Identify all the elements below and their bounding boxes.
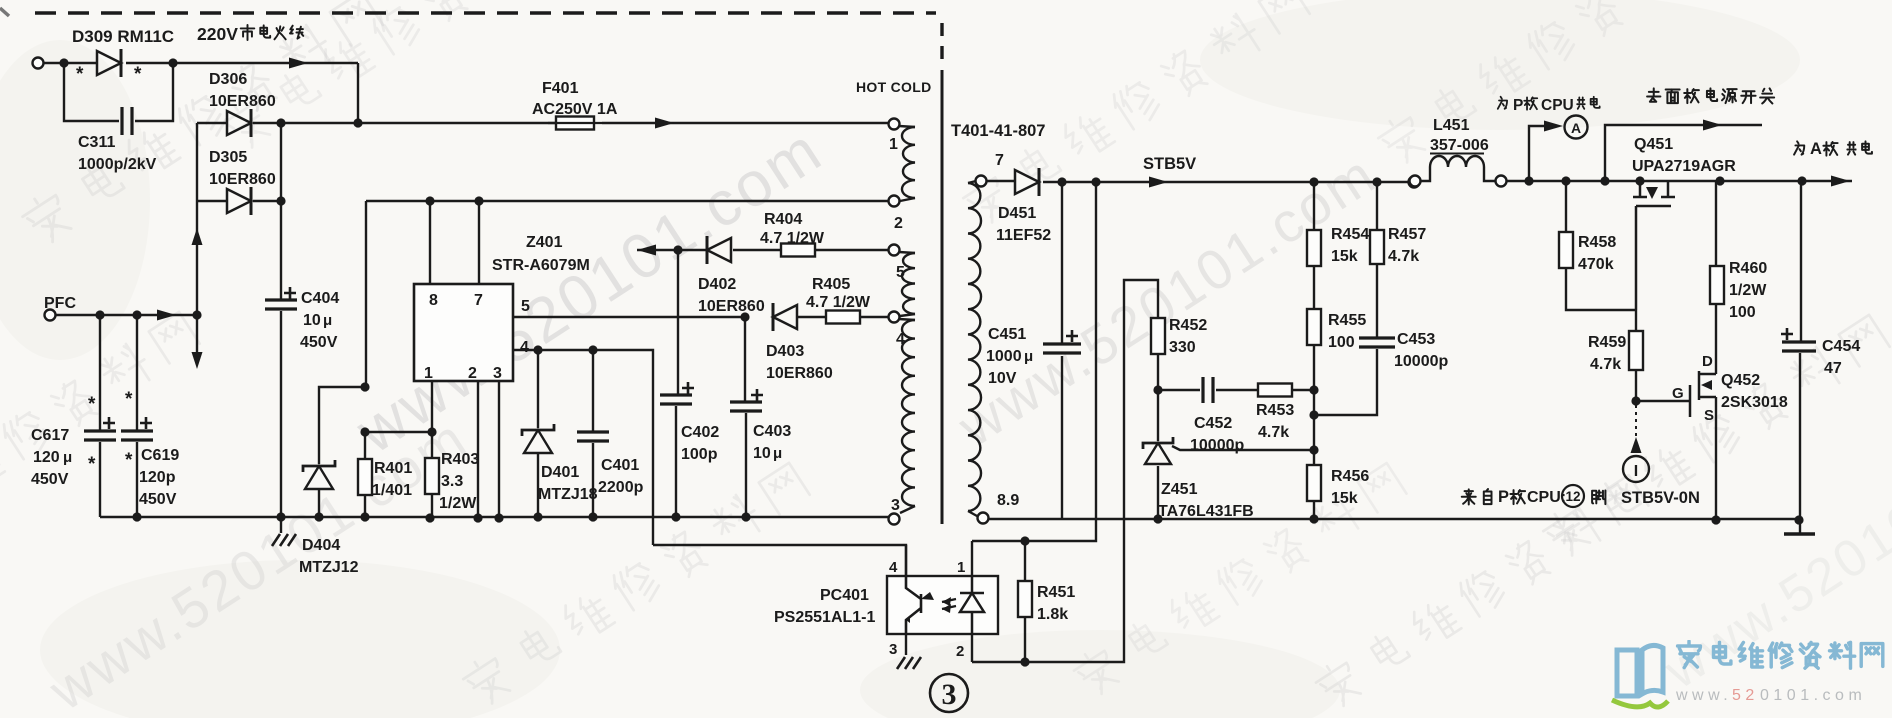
svg-text:D404: D404 — [302, 537, 340, 554]
inductor L451 right terminal — [1496, 176, 1507, 187]
svg-text:470k: 470k — [1578, 256, 1614, 273]
svg-text:10V: 10V — [988, 370, 1017, 387]
dashed HOT/COLD boundary top — [35, 11, 936, 15]
transformer T401 winding 4-3 — [899, 319, 915, 513]
svg-text:A: A — [1571, 120, 1581, 136]
resistor R401 — [358, 432, 412, 522]
svg-text:4.7 1/2W: 4.7 1/2W — [760, 230, 825, 247]
svg-text:100p: 100p — [681, 446, 718, 463]
svg-text:PC401: PC401 — [820, 587, 869, 604]
svg-text:450V: 450V — [300, 334, 338, 351]
svg-text:4.7k: 4.7k — [1590, 356, 1621, 373]
svg-text:R454: R454 — [1331, 226, 1369, 243]
svg-text:R459: R459 — [1588, 334, 1626, 351]
resistor R459 — [1588, 310, 1643, 401]
scan corner artifact — [0, 8, 9, 16]
svg-text:4.7k: 4.7k — [1388, 248, 1419, 265]
svg-text:C401: C401 — [601, 457, 639, 474]
inductor L451 357-006 — [1410, 117, 1497, 187]
svg-text:C451: C451 — [988, 326, 1026, 343]
primary bottom rail — [100, 512, 889, 521]
svg-text:P: P — [1513, 97, 1523, 114]
svg-text:D402: D402 — [698, 276, 736, 293]
dashed HOT/COLD boundary vertical + transformer core — [940, 23, 943, 524]
svg-text:P: P — [1498, 488, 1509, 506]
svg-text:D306: D306 — [209, 71, 247, 88]
svg-text:Q452: Q452 — [1721, 372, 1760, 389]
capacitor C403 — [730, 317, 791, 517]
primary ground — [272, 512, 296, 546]
wire R401-R403 bridge — [360, 427, 432, 436]
svg-text:R405: R405 — [812, 276, 850, 293]
label from P-board CPU pin 12 — [1462, 485, 1606, 507]
svg-text:2200p: 2200p — [598, 479, 644, 496]
svg-text:2: 2 — [956, 643, 964, 660]
capacitor C311 — [64, 63, 173, 173]
svg-text:D305: D305 — [209, 149, 247, 166]
svg-text:R456: R456 — [1331, 468, 1369, 485]
svg-text:D403: D403 — [766, 343, 804, 360]
svg-text:100: 100 — [1328, 334, 1355, 351]
wire Q452 source — [1711, 397, 1720, 525]
svg-text:CPU:: CPU: — [1527, 489, 1566, 506]
node D306 cathode — [276, 118, 362, 127]
svg-text:3: 3 — [889, 641, 897, 658]
resistor R456 — [1307, 465, 1369, 524]
svg-text:0101.com: 0101.com — [1760, 687, 1866, 704]
wire — [43, 58, 97, 67]
svg-text:μ: μ — [323, 312, 332, 329]
svg-text:A: A — [1810, 140, 1822, 158]
svg-text:8: 8 — [429, 292, 438, 309]
transformer T401 primary winding 1-2 — [899, 126, 915, 201]
wire Z401 pin 1 — [427, 381, 436, 458]
wire Z401 pin 2 — [473, 381, 482, 523]
svg-text:3: 3 — [891, 497, 900, 514]
transformer T401 pin 1 terminal — [889, 119, 900, 154]
svg-text:120p: 120p — [139, 469, 176, 486]
wire live to F401 branch — [126, 58, 358, 124]
resistor R452 — [1151, 317, 1207, 390]
svg-text:7: 7 — [474, 292, 483, 309]
STB5V rail terminal — [1409, 177, 1420, 188]
svg-text:R458: R458 — [1578, 234, 1616, 251]
branch to panel power switch — [1605, 120, 1762, 182]
wire D306-D305 anodes — [196, 123, 198, 201]
svg-text:D451: D451 — [998, 205, 1036, 222]
svg-text:1/2W: 1/2W — [439, 495, 477, 512]
svg-text:2: 2 — [468, 365, 477, 382]
svg-text:1000: 1000 — [986, 348, 1022, 365]
svg-text:R457: R457 — [1388, 226, 1426, 243]
resistor R405 — [798, 276, 889, 324]
svg-text:3.3: 3.3 — [441, 473, 463, 490]
node R452/Z451 — [1153, 385, 1162, 394]
diode D403 — [766, 303, 833, 382]
svg-text:10000p: 10000p — [1394, 353, 1448, 370]
label STB5V — [1143, 155, 1196, 173]
svg-text:*: * — [134, 64, 142, 85]
svg-text:C454: C454 — [1822, 338, 1860, 355]
resistor R404 — [733, 211, 889, 257]
label STB5V-ON — [1621, 489, 1700, 507]
svg-text:*: * — [125, 450, 133, 471]
transistor Q452 2SK3018 — [1636, 353, 1788, 424]
page reference circled 3 — [930, 674, 968, 712]
svg-text:μ: μ — [63, 449, 72, 466]
wire arrow to pin5 row — [637, 245, 707, 256]
zener D404 MTZJ12 — [299, 382, 370, 576]
PC401 phototransistor — [906, 576, 934, 634]
wire Z401 pin 7 — [478, 201, 480, 284]
svg-text:C404: C404 — [301, 290, 339, 307]
svg-text:10ER860: 10ER860 — [698, 298, 765, 315]
node pin5/D403 — [740, 312, 749, 321]
svg-text:220V: 220V — [197, 24, 238, 44]
svg-text:11EF52: 11EF52 — [996, 227, 1051, 244]
svg-text:1: 1 — [957, 559, 965, 576]
logo url — [1675, 687, 1866, 704]
meter circle A — [1565, 116, 1588, 139]
svg-text:450V: 450V — [139, 491, 177, 508]
svg-text:www.: www. — [1675, 687, 1732, 704]
svg-text:CPU: CPU — [1541, 97, 1574, 114]
svg-text:STB5V: STB5V — [1143, 155, 1196, 173]
svg-text:R403: R403 — [441, 451, 479, 468]
transformer T401 pin 4 terminal — [889, 312, 906, 349]
transformer T401 secondary winding — [968, 181, 981, 516]
svg-text:7: 7 — [995, 152, 1004, 169]
svg-text:TA76L431FB: TA76L431FB — [1158, 503, 1254, 520]
svg-text:μ: μ — [773, 445, 782, 462]
svg-text:10ER860: 10ER860 — [209, 93, 276, 110]
svg-text:10: 10 — [303, 312, 321, 329]
wire D305-D306 cathodes — [280, 123, 282, 201]
svg-text:*: * — [76, 64, 84, 85]
svg-text:R404: R404 — [764, 211, 802, 228]
label to panel power switch — [1647, 88, 1774, 103]
resistor R403 — [425, 451, 479, 523]
svg-text:HOT COLD: HOT COLD — [856, 79, 932, 95]
zener D401 MTZJ18 — [522, 350, 598, 517]
svg-text:I: I — [1634, 463, 1638, 480]
shunt regulator Z451 TA76L431FB — [1143, 390, 1314, 524]
svg-text:*: * — [88, 394, 96, 415]
svg-text:C453: C453 — [1397, 331, 1435, 348]
capacitor C402 — [660, 250, 719, 517]
svg-text:D: D — [1702, 353, 1713, 370]
svg-text:450V: 450V — [31, 471, 69, 488]
label 220V mains live — [197, 24, 303, 44]
wire output rail — [1506, 176, 1852, 187]
wire STB5V rail — [1043, 177, 1409, 188]
svg-text:Z401: Z401 — [526, 234, 563, 251]
svg-text:8.9: 8.9 — [997, 492, 1019, 509]
svg-text:5: 5 — [521, 298, 530, 315]
resistor R458 — [1559, 181, 1636, 310]
svg-text:1/2W: 1/2W — [1729, 282, 1767, 299]
svg-text:1.8k: 1.8k — [1037, 606, 1068, 623]
svg-text:10ER860: 10ER860 — [766, 365, 833, 382]
svg-text:357-006: 357-006 — [1430, 137, 1489, 154]
wire PC401 pin2 feedback — [972, 280, 1158, 667]
secondary ground — [1784, 520, 1815, 534]
capacitor C404 — [265, 201, 339, 517]
svg-text:100: 100 — [1729, 304, 1756, 321]
svg-text:D401: D401 — [541, 464, 579, 481]
PFC input terminal — [44, 295, 76, 321]
svg-text:STB5V-0N: STB5V-0N — [1621, 489, 1700, 507]
svg-text:120: 120 — [33, 449, 60, 466]
capacitor C619 — [121, 315, 179, 522]
svg-text:R401: R401 — [374, 460, 412, 477]
wire Q452 drain — [1715, 304, 1717, 374]
svg-text:R460: R460 — [1729, 260, 1767, 277]
svg-text:10ER860: 10ER860 — [209, 171, 276, 188]
wire Z401 pin 8 — [429, 201, 431, 284]
svg-text:47: 47 — [1824, 360, 1842, 377]
wire pin2-to-Z401 top rail — [366, 196, 889, 387]
logo site name — [1678, 641, 1883, 668]
svg-text:15k: 15k — [1331, 248, 1358, 265]
transformer T401 pin 3 terminal — [889, 497, 901, 525]
svg-text:1/401: 1/401 — [372, 482, 412, 499]
secondary bottom rail — [989, 518, 1797, 520]
svg-text:D309 RM11C: D309 RM11C — [72, 27, 174, 46]
resistor R460 — [1710, 181, 1767, 321]
svg-text:C619: C619 — [141, 447, 179, 464]
svg-text:R455: R455 — [1328, 312, 1366, 329]
label to A-board supply — [1794, 140, 1872, 158]
svg-text:Z451: Z451 — [1161, 481, 1198, 498]
diode D451 11EF52 — [986, 168, 1051, 244]
svg-text:2: 2 — [894, 215, 903, 232]
transformer T401 pin 8.9 terminal — [978, 492, 1020, 524]
svg-text:UPA2719AGR: UPA2719AGR — [1632, 158, 1736, 175]
svg-text:10: 10 — [753, 445, 771, 462]
svg-text:3: 3 — [942, 678, 957, 711]
capacitor C452 — [1158, 377, 1258, 454]
branch to P-board CPU — [1529, 121, 1563, 182]
svg-text:C311: C311 — [78, 134, 115, 151]
svg-text:C452: C452 — [1194, 415, 1232, 432]
svg-text:Q451: Q451 — [1634, 136, 1673, 153]
node Q452 gate — [1631, 396, 1640, 405]
diode D305 — [197, 149, 286, 215]
svg-text:15k: 15k — [1331, 490, 1358, 507]
svg-text:F401: F401 — [542, 80, 579, 97]
svg-text:10000p: 10000p — [1190, 437, 1244, 454]
signal source circle I — [1623, 405, 1649, 482]
resistor R457 — [1370, 182, 1426, 265]
transformer T401 pin 2 terminal — [889, 196, 904, 233]
svg-text:T401-41-807: T401-41-807 — [951, 122, 1045, 140]
capacitor C401 — [577, 350, 644, 517]
fuse F401 — [358, 80, 889, 130]
resistor R455 — [1307, 266, 1366, 465]
svg-text:R453: R453 — [1256, 402, 1294, 419]
wire Z401 pin 3 — [494, 381, 503, 523]
svg-text:L451: L451 — [1433, 117, 1470, 134]
PC401 pin 1 lead — [957, 541, 972, 576]
svg-text:4: 4 — [520, 339, 529, 356]
transistor Q451 UPA2719AGR — [1632, 136, 1736, 310]
svg-text:C403: C403 — [753, 423, 791, 440]
label T401-41-807 — [951, 122, 1045, 140]
capacitor C451 — [986, 182, 1081, 519]
svg-text:R452: R452 — [1169, 317, 1207, 334]
svg-text:MTZJ18: MTZJ18 — [538, 486, 598, 503]
svg-text:www.520101.com: www.520101.com — [946, 142, 1387, 459]
wire Z401 pin4 to PC401 — [653, 545, 906, 576]
svg-text:1: 1 — [424, 365, 433, 382]
svg-text:R451: R451 — [1037, 584, 1075, 601]
capacitor C617 — [31, 315, 116, 517]
diode D309 — [72, 27, 174, 85]
svg-text:4.7 1/2W: 4.7 1/2W — [806, 294, 871, 311]
svg-text:C402: C402 — [681, 424, 719, 441]
svg-text:C617: C617 — [31, 427, 69, 444]
PC401 LED — [942, 576, 984, 634]
logo book icon — [1612, 645, 1668, 707]
resistor R453 — [1256, 384, 1314, 442]
svg-text:*: * — [88, 454, 96, 475]
svg-text:3: 3 — [493, 365, 502, 382]
capacitor C453 — [1314, 264, 1448, 415]
svg-text:4: 4 — [889, 559, 898, 576]
svg-text:G: G — [1672, 385, 1684, 402]
svg-text:1: 1 — [889, 136, 898, 153]
diode D402 — [698, 236, 765, 315]
svg-text:52: 52 — [1732, 687, 1759, 704]
wire Z401 pin 4 rail — [513, 345, 653, 545]
svg-text:12: 12 — [1565, 489, 1580, 504]
svg-text:4.7k: 4.7k — [1258, 424, 1289, 441]
svg-text:μ: μ — [1024, 348, 1033, 365]
resistor R451 — [1018, 541, 1075, 662]
svg-text:1000p/2kV: 1000p/2kV — [78, 156, 157, 173]
op-amp U1 Z401 STR-A6079M box — [414, 234, 590, 382]
PC401 pin 3 lead — [889, 634, 921, 669]
label HOT COLD — [856, 79, 932, 95]
wire PFC rail — [55, 310, 197, 321]
wire STB5V to PC401 pin1 — [972, 182, 1096, 546]
svg-text:2SK3018: 2SK3018 — [1721, 394, 1788, 411]
svg-text:330: 330 — [1169, 339, 1196, 356]
transformer T401 pin 5 terminal — [889, 245, 906, 282]
PC401 pin 2 lead — [956, 634, 972, 662]
AC live input terminal — [33, 58, 44, 69]
PC401 pin 4 lead — [889, 545, 906, 576]
wire rectifier mid-leg — [192, 201, 203, 369]
svg-text:PS2551AL1-1: PS2551AL1-1 — [774, 609, 875, 626]
svg-text:STR-A6079M: STR-A6079M — [492, 257, 590, 274]
optocoupler PC401 box — [774, 576, 998, 634]
diode D306 — [197, 71, 281, 137]
svg-text:*: * — [125, 389, 133, 410]
label P-board CPU supply — [1498, 97, 1600, 114]
svg-text:MTZJ12: MTZJ12 — [299, 559, 359, 576]
transformer T401 winding 5-4 — [899, 252, 915, 316]
resistor R454 — [1307, 182, 1369, 266]
wire Z401 pin 5 to D403 node — [513, 316, 745, 318]
svg-text:S: S — [1704, 407, 1714, 424]
capacitor C454 — [1781, 181, 1860, 525]
transformer T401 pin 7 terminal — [976, 152, 1005, 187]
